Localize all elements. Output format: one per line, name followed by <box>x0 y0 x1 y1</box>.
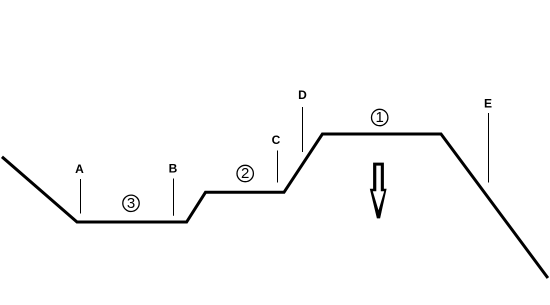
svg-text:B: B <box>169 162 178 176</box>
svg-text:A: A <box>75 162 84 176</box>
hollow down arrow <box>370 163 387 219</box>
tick B <box>173 179 175 216</box>
svg-text:C: C <box>272 133 281 147</box>
circled number 2 <box>237 165 253 182</box>
terrain profile line <box>3 134 547 277</box>
svg-text:E: E <box>484 97 492 111</box>
svg-text:2: 2 <box>241 165 249 182</box>
svg-text:1: 1 <box>376 109 384 126</box>
tick E <box>488 113 490 183</box>
tick A <box>80 179 82 214</box>
tick C <box>277 151 279 183</box>
circled number 1 <box>372 109 388 126</box>
tick D <box>302 107 304 152</box>
svg-text:D: D <box>298 88 307 102</box>
circled number 3 <box>123 195 139 212</box>
svg-text:3: 3 <box>127 195 135 212</box>
